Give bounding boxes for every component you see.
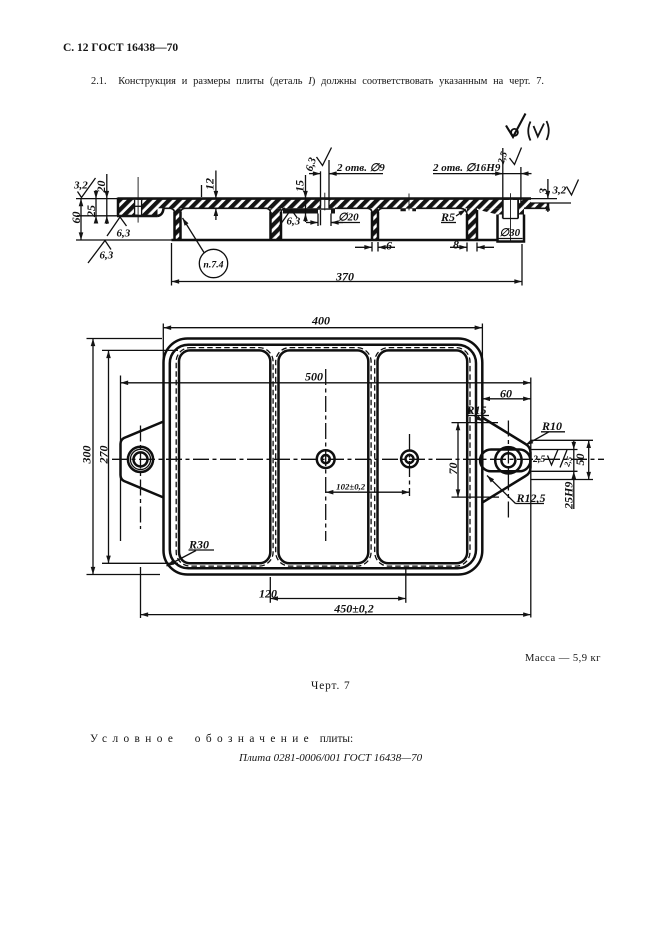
body outer contour	[164, 339, 483, 575]
vertical centerline left ear	[140, 426, 142, 530]
svg-text:2 отв. ∅9: 2 отв. ∅9	[336, 162, 385, 174]
svg-text:450±0,2: 450±0,2	[333, 602, 374, 616]
svg-text:R10: R10	[541, 419, 562, 433]
hatched ear block	[118, 199, 158, 216]
svg-text:3,2: 3,2	[73, 180, 88, 192]
label 2 otv d9	[309, 160, 385, 225]
svg-text:6,3: 6,3	[287, 216, 301, 228]
svg-text:∅20: ∅20	[338, 212, 359, 224]
right wall edges	[466, 214, 469, 241]
general roughness symbol	[506, 114, 549, 141]
pocket 2	[279, 350, 369, 563]
dim 370	[172, 243, 523, 286]
hole 2 d20	[401, 451, 418, 468]
pocket 2 hidden	[276, 348, 371, 566]
svg-text:3: 3	[536, 188, 550, 195]
dim 60 left	[69, 199, 83, 240]
svg-text:50: 50	[573, 454, 587, 466]
rib1 edges	[269, 212, 272, 240]
pocket 1	[179, 350, 270, 563]
hatched step right end	[531, 203, 548, 208]
bottom line	[172, 239, 498, 242]
svg-text:2 отв. ∅16Н9: 2 отв. ∅16Н9	[432, 162, 501, 174]
ear bottom	[117, 215, 158, 218]
vertical centerline right ear	[507, 421, 509, 518]
svg-text:102±0,2: 102±0,2	[336, 482, 366, 492]
svg-text:п.7.4: п.7.4	[203, 260, 223, 271]
left ear boss circle d30	[128, 447, 153, 472]
rib2 edges	[371, 212, 374, 240]
svg-text:300: 300	[80, 446, 94, 465]
dim 120	[259, 567, 406, 603]
hole 2 d9	[406, 455, 414, 463]
horizontal centerline	[112, 458, 604, 460]
right underside	[524, 207, 548, 209]
roughness 3,2 right	[552, 180, 579, 197]
svg-text:3,2: 3,2	[552, 185, 567, 197]
small pad centerline	[408, 194, 410, 211]
dim 450±0,2	[141, 567, 531, 618]
dim 25H9 slot	[532, 440, 578, 510]
svg-text:6,3: 6,3	[100, 250, 114, 262]
hatched rib 1	[271, 208, 282, 240]
svg-text:25Н9: 25Н9	[562, 482, 576, 510]
dim 20	[94, 174, 108, 224]
body inner contour	[170, 345, 476, 569]
dim 300	[80, 339, 163, 575]
hatched web to boss	[477, 208, 524, 214]
roughness 3,2 left	[73, 178, 96, 198]
hole d9 centerline	[324, 193, 326, 211]
right ear boss circle d30	[495, 447, 521, 473]
svg-text:70: 70	[446, 463, 460, 475]
dim 500	[121, 370, 531, 542]
hatched rib 2	[372, 208, 378, 240]
dim 400	[163, 314, 482, 426]
boss outline	[498, 215, 525, 242]
left ear circle d25	[130, 449, 150, 469]
pocket 3 hidden	[375, 348, 470, 566]
dim 70	[446, 423, 499, 498]
callout p.7.4	[183, 218, 228, 278]
hole 1 d20	[317, 450, 335, 468]
label R5	[440, 210, 466, 225]
top surface extension right	[531, 198, 557, 200]
dim 6 rib2	[355, 239, 395, 253]
figure caption	[311, 680, 351, 692]
hole d9	[321, 200, 330, 209]
dim 3 right	[536, 179, 550, 212]
dim 12 flange	[202, 171, 217, 221]
svg-text:∅30: ∅30	[500, 227, 521, 239]
roughness 6,3 under ear	[107, 217, 131, 240]
right edge	[547, 203, 550, 208]
pocket 3	[378, 350, 468, 563]
label R15	[466, 403, 490, 422]
mass note	[525, 653, 601, 664]
hatched left wall	[175, 208, 181, 240]
svg-text:2,5: 2,5	[532, 454, 545, 465]
svg-text:15: 15	[293, 180, 307, 192]
hole d16H9	[503, 200, 518, 219]
left ear outline	[121, 422, 164, 498]
label 2 otv d16H9	[432, 148, 532, 202]
flange underside segments	[164, 208, 468, 215]
roughness 2,5 rotated	[496, 148, 522, 167]
left ear hole d16H9	[134, 452, 148, 466]
svg-text:60: 60	[69, 212, 83, 224]
ear slot hole	[135, 200, 142, 215]
dim 50	[531, 440, 593, 479]
ear slot centerline	[137, 177, 139, 223]
ear step curve	[158, 208, 164, 216]
top surface line	[118, 197, 531, 200]
page header	[63, 42, 178, 54]
label R30	[167, 538, 215, 567]
top line extension left	[76, 198, 118, 200]
roughness 6,3 mid	[279, 210, 301, 228]
small pad	[401, 208, 417, 211]
roughness 6,3 rotated at d9	[303, 148, 331, 173]
svg-text:120: 120	[259, 587, 277, 601]
svg-text:12: 12	[203, 178, 217, 190]
step surface line	[531, 202, 571, 204]
dim 270	[97, 350, 179, 563]
svg-text:6,3: 6,3	[117, 228, 131, 240]
label d20 counterbore	[306, 212, 360, 227]
hole 1 d9	[322, 455, 330, 463]
label R10	[526, 419, 566, 445]
label R12,5	[487, 476, 546, 506]
right ear slot 25H9	[480, 449, 530, 471]
dim 102±0,2	[326, 482, 410, 493]
roughness 6,3 under bottom	[88, 241, 114, 264]
designation line	[239, 752, 422, 764]
left wall edges	[173, 212, 176, 240]
dim 25	[77, 190, 118, 224]
hole d16 centerline	[510, 193, 512, 242]
hatched flange strip	[118, 199, 531, 209]
paragraph 2.1	[91, 76, 544, 87]
svg-text:500: 500	[305, 370, 323, 384]
dim 8 wall	[450, 238, 494, 252]
ear left edge	[117, 198, 120, 217]
hatched right wall	[467, 208, 477, 240]
right ear hole d16H9	[501, 453, 515, 467]
svg-text:20: 20	[94, 181, 108, 194]
right ear outline	[482, 418, 530, 503]
dim 60	[482, 378, 531, 618]
roughness 2,5 slot	[532, 450, 574, 469]
pocket 1 hidden	[176, 348, 273, 566]
vertical centerline hole2	[409, 434, 411, 496]
svg-text:270: 270	[97, 446, 111, 465]
svg-text:370: 370	[335, 270, 354, 284]
counterbore pad	[283, 208, 335, 213]
svg-text:400: 400	[311, 314, 330, 328]
svg-text:60: 60	[500, 387, 512, 401]
svg-text:6: 6	[386, 239, 392, 253]
svg-text:8: 8	[453, 238, 459, 252]
conventional designation heading	[90, 733, 353, 745]
dim 15	[293, 175, 307, 222]
extension y240 left	[76, 239, 172, 241]
vertical centerline hole1	[325, 369, 327, 541]
